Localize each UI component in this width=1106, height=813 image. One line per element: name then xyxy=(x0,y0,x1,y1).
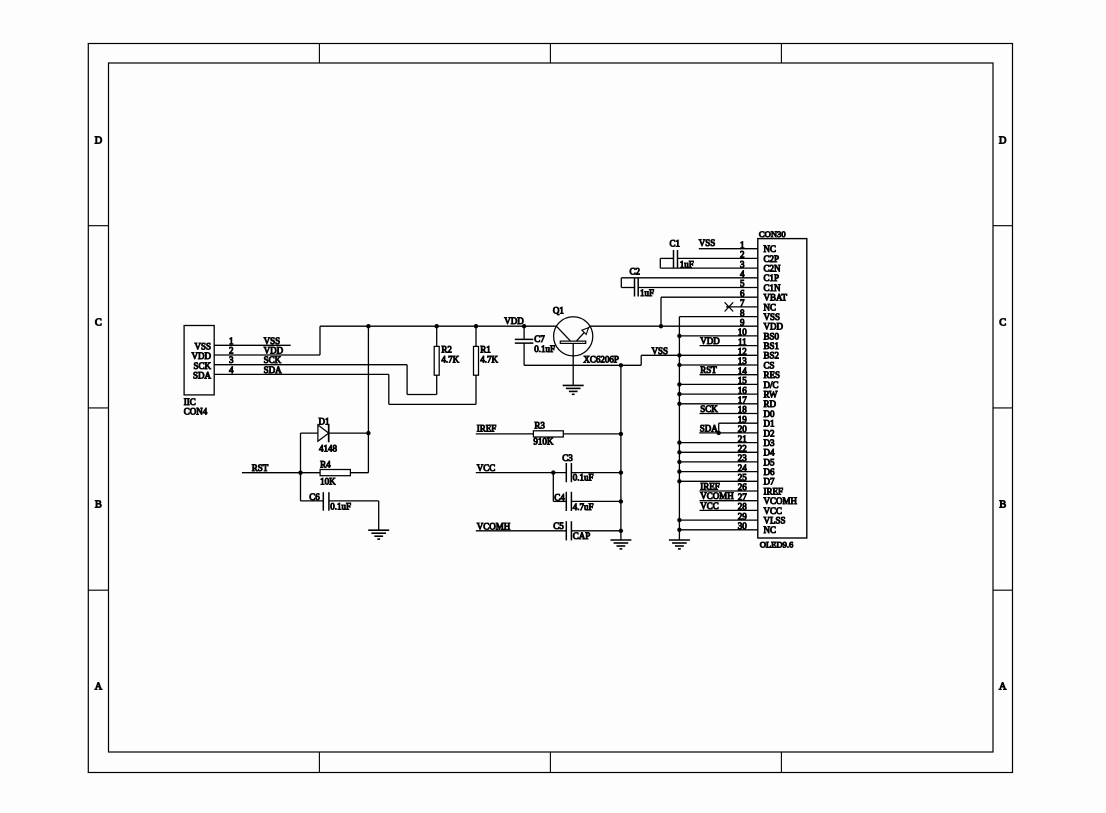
svg-text:29: 29 xyxy=(738,511,748,521)
svg-text:0.1uF: 0.1uF xyxy=(330,501,351,511)
svg-text:3: 3 xyxy=(740,259,745,269)
svg-text:0.1uF: 0.1uF xyxy=(534,344,555,354)
wire D1 branch vertical xyxy=(367,326,369,473)
wire CON4 pin3 SCK to R2 bottom xyxy=(214,365,437,395)
CON4 pin numbers 1-4 xyxy=(229,336,234,375)
resistor R2 xyxy=(434,326,439,394)
svg-text:8: 8 xyxy=(740,308,745,318)
ground (Q1) xyxy=(563,385,584,394)
ground (VSS bus) xyxy=(669,540,690,549)
capacitor C1 xyxy=(660,250,677,268)
svg-text:24: 24 xyxy=(738,463,748,473)
svg-text:VSS: VSS xyxy=(652,346,669,356)
wire CON4 pin2 VDD to rail riser xyxy=(214,326,320,355)
resistor R3 xyxy=(533,431,563,437)
svg-text:Q1: Q1 xyxy=(553,306,564,316)
svg-text:25: 25 xyxy=(738,473,748,483)
svg-text:13: 13 xyxy=(738,356,748,366)
connector CON4 (IIC) xyxy=(184,326,214,417)
junction dot pin19/20 xyxy=(717,431,721,435)
svg-text:C: C xyxy=(95,318,102,329)
svg-text:C2P: C2P xyxy=(764,254,780,264)
junction dot D1 xyxy=(366,431,370,435)
svg-text:CON4: CON4 xyxy=(184,406,208,416)
svg-text:VLSS: VLSS xyxy=(764,516,786,526)
svg-text:20: 20 xyxy=(738,424,748,434)
svg-text:D2: D2 xyxy=(764,428,775,438)
svg-text:19: 19 xyxy=(738,414,748,424)
svg-text:C1P: C1P xyxy=(764,273,780,283)
resistor R4 xyxy=(320,470,350,476)
connector CON30 (OLED9.6) xyxy=(758,229,807,549)
wire pin3 C2N xyxy=(660,267,758,269)
svg-text:26: 26 xyxy=(738,482,748,492)
transistor Q1 xyxy=(554,317,593,386)
junction dot R3/bus xyxy=(619,432,623,436)
svg-text:A: A xyxy=(999,681,1007,692)
junction dot C5/bus xyxy=(619,529,623,533)
svg-text:IREF: IREF xyxy=(477,424,497,434)
svg-text:VDD: VDD xyxy=(504,316,524,326)
svg-text:15: 15 xyxy=(738,376,748,386)
svg-text:4.7K: 4.7K xyxy=(441,355,459,365)
svg-text:VBAT: VBAT xyxy=(764,293,788,303)
svg-text:21: 21 xyxy=(738,434,747,444)
svg-text:18: 18 xyxy=(738,405,748,415)
svg-text:R1: R1 xyxy=(480,345,491,355)
svg-text:VCC: VCC xyxy=(700,501,719,511)
svg-text:1uF: 1uF xyxy=(680,260,694,270)
svg-text:C6: C6 xyxy=(309,492,320,502)
svg-text:SDA: SDA xyxy=(700,423,719,433)
svg-text:VCOMH: VCOMH xyxy=(764,496,798,506)
svg-text:SDA: SDA xyxy=(193,371,212,381)
border frame outer xyxy=(88,44,1012,773)
wire VCOMH line xyxy=(476,530,621,532)
svg-text:VDD: VDD xyxy=(264,346,284,356)
svg-text:R2: R2 xyxy=(441,345,452,355)
wire pin27 VCOMH stub xyxy=(700,500,758,502)
junction dot RST node xyxy=(298,471,302,475)
svg-text:10: 10 xyxy=(738,327,748,337)
svg-text:VDD: VDD xyxy=(192,351,212,361)
capacitor C6 xyxy=(323,492,329,511)
wire pin14 RST stub xyxy=(700,374,758,376)
svg-text:RST: RST xyxy=(252,463,269,473)
wire CON4 pin4 SDA to R1 bottom xyxy=(214,374,476,404)
svg-text:7: 7 xyxy=(740,298,745,308)
svg-text:23: 23 xyxy=(738,453,748,463)
svg-text:D7: D7 xyxy=(764,477,775,487)
svg-text:D: D xyxy=(95,136,103,147)
svg-text:VDD: VDD xyxy=(764,322,784,332)
wire D1 anode/cathode leads xyxy=(301,433,369,473)
svg-text:22: 22 xyxy=(738,444,747,454)
svg-text:C2: C2 xyxy=(630,267,641,277)
svg-text:IREF: IREF xyxy=(764,486,784,496)
svg-text:IREF: IREF xyxy=(700,482,720,492)
svg-text:NC: NC xyxy=(764,525,777,535)
svg-text:CON30: CON30 xyxy=(759,229,786,239)
wire CON4 pin1 VSS stub xyxy=(214,344,291,346)
capacitor C4 xyxy=(566,492,571,511)
svg-text:D3: D3 xyxy=(764,438,775,448)
svg-text:D1: D1 xyxy=(319,417,330,427)
svg-text:BS0: BS0 xyxy=(764,331,780,341)
wire pin20 D2 SDA stub xyxy=(699,432,758,434)
svg-text:C1N: C1N xyxy=(764,283,782,293)
svg-text:VCC: VCC xyxy=(764,506,783,516)
svg-text:910K: 910K xyxy=(533,437,554,447)
resistor R1 xyxy=(474,326,479,404)
border frame inner xyxy=(109,63,994,752)
svg-text:10K: 10K xyxy=(320,476,336,486)
wire pin18 SCK stub xyxy=(700,413,758,415)
svg-text:VDD: VDD xyxy=(700,336,720,346)
wire pin7 NC with X xyxy=(725,302,758,311)
capacitor C2 xyxy=(621,278,638,297)
svg-text:14: 14 xyxy=(738,366,748,376)
svg-text:4.7K: 4.7K xyxy=(480,355,498,365)
svg-text:27: 27 xyxy=(738,492,748,502)
svg-text:R3: R3 xyxy=(534,421,545,431)
wire pin1 VSS stub xyxy=(699,248,758,250)
svg-text:D6: D6 xyxy=(764,467,775,477)
svg-text:C: C xyxy=(999,318,1006,329)
wire IREF line xyxy=(476,433,621,435)
svg-text:C4: C4 xyxy=(554,493,565,503)
wire pin19 D1 jog xyxy=(719,423,758,433)
svg-text:2: 2 xyxy=(740,250,745,260)
wire C6 branch xyxy=(301,473,379,531)
svg-text:NC: NC xyxy=(764,302,777,312)
svg-text:3: 3 xyxy=(229,355,234,365)
wire VDD rail xyxy=(320,325,758,327)
svg-text:D0: D0 xyxy=(764,409,775,419)
frame ticks xyxy=(88,44,1012,773)
svg-text:28: 28 xyxy=(738,502,748,512)
svg-text:RD: RD xyxy=(764,399,777,409)
svg-text:XC6206P: XC6206P xyxy=(583,354,619,364)
svg-text:VSS: VSS xyxy=(264,336,281,346)
svg-text:SCK: SCK xyxy=(264,355,282,365)
svg-text:C5: C5 xyxy=(553,521,564,531)
svg-text:C3: C3 xyxy=(562,453,573,463)
wire VBAT riser to pin 6 xyxy=(661,297,758,326)
svg-text:6: 6 xyxy=(740,288,745,298)
svg-text:A: A xyxy=(95,681,103,692)
junction dots on VDD rail xyxy=(366,324,663,328)
svg-text:2: 2 xyxy=(229,346,234,356)
svg-text:D5: D5 xyxy=(764,457,775,467)
svg-text:C1: C1 xyxy=(670,238,681,248)
wire C7 bottom / VSS link xyxy=(524,355,679,365)
svg-text:12: 12 xyxy=(738,347,747,357)
wire VSS vertical bus xyxy=(678,317,680,540)
capacitor C3 xyxy=(566,463,571,482)
svg-text:NC: NC xyxy=(764,244,777,254)
CON30 pin numbers xyxy=(738,240,748,531)
svg-text:BS2: BS2 xyxy=(764,351,780,361)
svg-text:SCK: SCK xyxy=(700,404,718,414)
svg-text:17: 17 xyxy=(738,395,748,405)
junction dot C4/bus xyxy=(619,499,623,503)
svg-text:11: 11 xyxy=(738,337,747,347)
capacitor C5 xyxy=(566,521,571,540)
wire C4 branch xyxy=(553,473,621,502)
svg-text:D1: D1 xyxy=(764,419,775,429)
svg-text:1: 1 xyxy=(740,240,745,250)
wire RST line xyxy=(242,472,369,474)
ground (left bus) xyxy=(610,540,631,549)
ground (C6) xyxy=(368,530,389,539)
junction dot C3/bus xyxy=(619,470,623,474)
wires bus-tied pins xyxy=(679,336,757,530)
junction dots on VSS bus xyxy=(677,334,681,532)
svg-text:0.1uF: 0.1uF xyxy=(573,472,594,482)
wire pin11 VDD stub xyxy=(700,345,758,347)
svg-text:VCOMH: VCOMH xyxy=(700,491,734,501)
svg-text:CAP: CAP xyxy=(573,531,591,541)
wire VCC line xyxy=(476,472,621,474)
svg-text:1: 1 xyxy=(229,336,234,346)
svg-text:4: 4 xyxy=(229,365,234,375)
svg-text:C2N: C2N xyxy=(764,264,782,274)
svg-text:BS1: BS1 xyxy=(764,341,780,351)
svg-text:VCC: VCC xyxy=(477,463,496,473)
svg-text:D/C: D/C xyxy=(764,380,779,390)
svg-text:4.7uF: 4.7uF xyxy=(573,502,594,512)
capacitor C7 xyxy=(515,326,534,365)
wire pin4 C1P xyxy=(621,277,758,279)
svg-text:R4: R4 xyxy=(320,460,331,470)
svg-text:C7: C7 xyxy=(534,334,545,344)
svg-text:RST: RST xyxy=(700,365,717,375)
svg-text:9: 9 xyxy=(740,317,745,327)
svg-text:D: D xyxy=(999,136,1007,147)
svg-text:16: 16 xyxy=(738,385,748,395)
svg-text:SCK: SCK xyxy=(193,361,211,371)
svg-text:VSS: VSS xyxy=(194,342,211,352)
svg-text:SDA: SDA xyxy=(264,365,283,375)
wire left ground bus xyxy=(620,365,622,540)
junction dot left bus top xyxy=(619,363,623,367)
svg-text:VSS: VSS xyxy=(699,238,716,248)
svg-text:OLED9.6: OLED9.6 xyxy=(760,539,794,549)
svg-text:CS: CS xyxy=(764,360,775,370)
svg-text:VCOMH: VCOMH xyxy=(477,521,511,531)
frame zone letters xyxy=(95,136,1007,693)
svg-text:5: 5 xyxy=(740,279,745,289)
wire pin8 VSS to bus xyxy=(679,316,757,318)
svg-text:B: B xyxy=(999,499,1006,510)
svg-text:4148: 4148 xyxy=(319,444,338,454)
svg-text:4: 4 xyxy=(740,269,745,279)
svg-text:30: 30 xyxy=(738,521,748,531)
svg-text:RES: RES xyxy=(764,370,781,380)
svg-text:D4: D4 xyxy=(764,448,775,458)
wire pin28 VCC stub xyxy=(700,509,758,511)
svg-text:VSS: VSS xyxy=(764,312,781,322)
wire pin26 IREF stub xyxy=(700,490,758,492)
svg-text:1uF: 1uF xyxy=(640,288,654,298)
wire pin2 C2P xyxy=(678,257,758,259)
svg-text:B: B xyxy=(95,499,102,510)
junction dot VCC branch xyxy=(551,470,555,474)
svg-text:RW: RW xyxy=(764,390,779,400)
diode D1 xyxy=(318,425,329,443)
wire pin5 C1N xyxy=(638,287,758,289)
